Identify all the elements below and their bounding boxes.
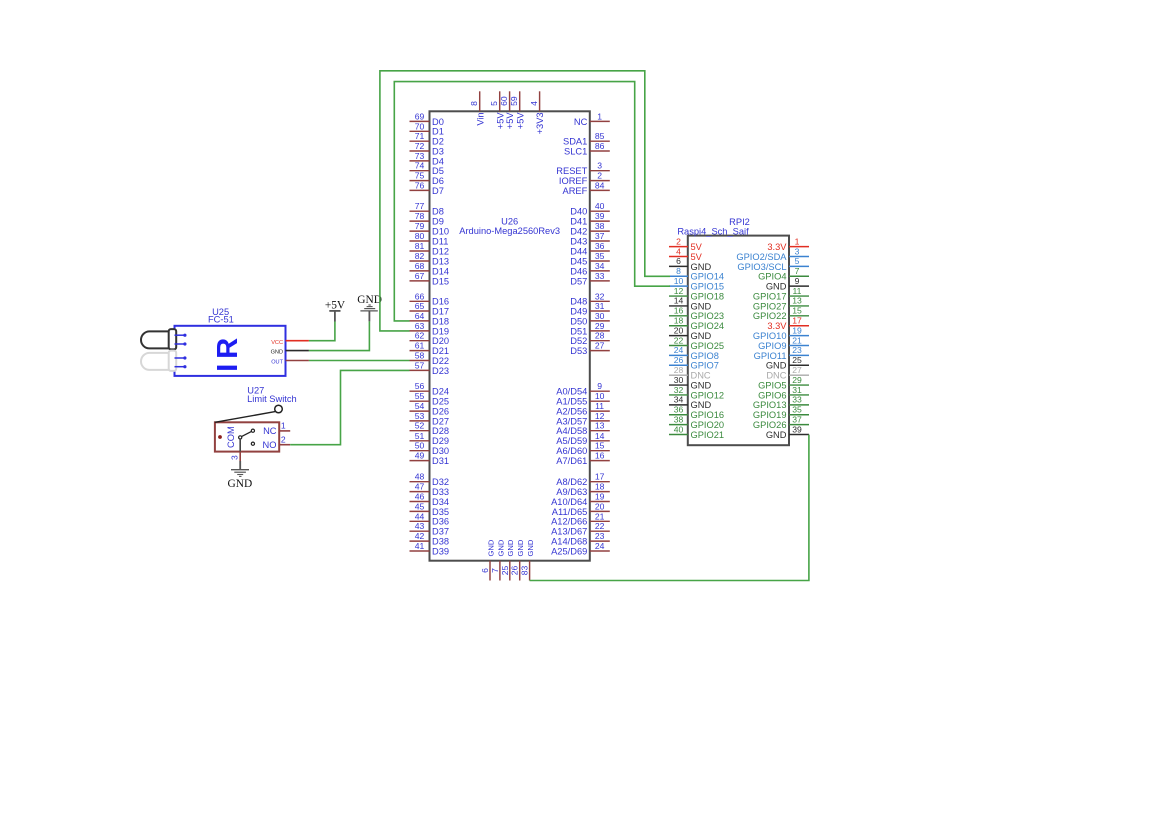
svg-text:A9/D63: A9/D63 — [556, 487, 587, 497]
svg-text:49: 49 — [415, 451, 425, 461]
U26 pin 43 D37 (left) — [410, 521, 450, 536]
RPI2 pin 26 GPIO7 (left) — [669, 355, 719, 371]
svg-text:3: 3 — [229, 455, 239, 460]
svg-text:A13/D67: A13/D67 — [551, 527, 587, 537]
svg-text:GPIO22: GPIO22 — [753, 311, 787, 321]
svg-text:34: 34 — [674, 395, 684, 405]
svg-text:32: 32 — [595, 291, 605, 301]
U26 pin 36 D44 (right) — [570, 241, 610, 256]
RPI2 pin 7 GPIO4 (right) — [758, 266, 809, 282]
svg-text:D23: D23 — [432, 366, 449, 376]
svg-text:D21: D21 — [432, 346, 449, 356]
svg-text:53: 53 — [415, 411, 425, 421]
U26 pin 61 D21 (left) — [410, 341, 450, 356]
svg-text:IR: IR — [212, 333, 244, 372]
svg-text:22: 22 — [674, 335, 684, 345]
svg-text:64: 64 — [415, 311, 425, 321]
svg-text:22: 22 — [595, 521, 605, 531]
svg-text:40: 40 — [595, 201, 605, 211]
svg-text:39: 39 — [792, 424, 802, 434]
U26 pin 68 D14 (left) — [410, 261, 450, 276]
U26 pin 65 D17 (left) — [410, 301, 450, 316]
U26 pin 73 D4 (left) — [410, 151, 444, 166]
svg-text:D26: D26 — [432, 407, 449, 417]
RPI2 pin 35 GPIO19 (right) — [753, 405, 809, 421]
wire U25 OUT to U26 D22 — [309, 360, 410, 362]
svg-text:7: 7 — [490, 568, 500, 573]
svg-text:U26: U26 — [501, 217, 518, 227]
RPI2 pin 27 DNC (right) — [766, 365, 809, 381]
U27 pin 3 COM (bottom) — [229, 452, 240, 461]
svg-text:25: 25 — [792, 355, 802, 365]
svg-text:24: 24 — [674, 345, 684, 355]
svg-text:A5/D59: A5/D59 — [556, 436, 587, 446]
svg-text:GPIO2/SDA: GPIO2/SDA — [736, 252, 787, 262]
U26 pin 18 A9/D63 (right) — [556, 482, 610, 497]
U26 pin 8 Vin (top) — [469, 91, 485, 125]
svg-text:1: 1 — [795, 236, 800, 246]
svg-text:79: 79 — [415, 221, 425, 231]
U26 pin 27 D53 (right) — [570, 341, 610, 356]
svg-text:A8/D62: A8/D62 — [556, 477, 587, 487]
U26 pin 3 RESET (right) — [556, 161, 610, 176]
U27 roller actuator circle — [275, 405, 283, 413]
svg-text:D10: D10 — [432, 227, 449, 237]
U26 pin 51 D29 (left) — [410, 431, 450, 446]
sensor U25 FC-51 body — [175, 326, 286, 376]
svg-text:30: 30 — [595, 311, 605, 321]
svg-text:21: 21 — [595, 511, 605, 521]
U27 common terminal dot — [218, 435, 222, 439]
svg-text:+3V3: +3V3 — [535, 112, 545, 134]
svg-text:36: 36 — [595, 241, 605, 251]
U26 pin 82 D13 (left) — [410, 251, 450, 266]
U26 pin 85 SDA1 (right) — [563, 131, 610, 146]
U26 pin 40 D40 (right) — [570, 201, 610, 216]
svg-text:D25: D25 — [432, 397, 449, 407]
U26 pin 86 SLC1 (right) — [564, 141, 610, 156]
svg-text:GPIO6: GPIO6 — [758, 390, 786, 400]
svg-text:D33: D33 — [432, 487, 449, 497]
RPI2 pin 11 GPIO17 (right) — [753, 286, 809, 302]
svg-text:52: 52 — [415, 421, 425, 431]
svg-text:50: 50 — [415, 441, 425, 451]
svg-text:GND: GND — [691, 331, 712, 341]
svg-text:D50: D50 — [570, 316, 587, 326]
svg-text:A25/D69: A25/D69 — [551, 546, 587, 556]
switch U27 Limit Switch body — [215, 422, 279, 451]
svg-text:GPIO25: GPIO25 — [691, 341, 725, 351]
U27 pin 2 NO — [263, 435, 291, 451]
svg-text:A14/D68: A14/D68 — [551, 537, 587, 547]
svg-text:GND: GND — [271, 350, 283, 356]
svg-text:D12: D12 — [432, 246, 449, 256]
svg-text:D52: D52 — [570, 336, 587, 346]
RPI2 pin 18 GPIO24 (left) — [669, 316, 724, 332]
svg-text:GND: GND — [691, 380, 712, 390]
svg-text:82: 82 — [415, 251, 425, 261]
svg-text:23: 23 — [792, 345, 802, 355]
svg-text:3.3V: 3.3V — [767, 321, 787, 331]
svg-text:61: 61 — [415, 341, 425, 351]
svg-text:GPIO5: GPIO5 — [758, 380, 786, 390]
svg-text:GPIO8: GPIO8 — [691, 351, 719, 361]
svg-text:D35: D35 — [432, 507, 449, 517]
U26 pin 4 +3V3 (top) — [529, 91, 545, 134]
svg-text:1: 1 — [597, 111, 602, 121]
svg-text:3: 3 — [795, 246, 800, 256]
svg-text:GPIO20: GPIO20 — [691, 420, 725, 430]
U25 pin OUT — [271, 360, 309, 366]
svg-text:GPIO3/SCL: GPIO3/SCL — [737, 262, 786, 272]
wire U26 D18 to RPI2 GPIO15 (pin 10) — [394, 82, 670, 321]
U27 COM internal wire — [239, 439, 241, 452]
U26 pin 19 A10/D64 (right) — [551, 492, 610, 507]
svg-text:D6: D6 — [432, 176, 444, 186]
U26 pin 42 D38 (left) — [410, 531, 450, 546]
U27 switch pivot contact — [239, 436, 242, 439]
U25 internal LED pin 3 — [175, 356, 187, 359]
svg-text:D48: D48 — [570, 297, 587, 307]
svg-text:GND: GND — [506, 539, 515, 556]
svg-text:20: 20 — [674, 325, 684, 335]
U26 pin 55 D25 (left) — [410, 391, 450, 406]
RPI2 pin 28 DNC (left) — [669, 365, 711, 381]
svg-text:A0/D54: A0/D54 — [556, 387, 587, 397]
RPI2 pin 2 5V (left) — [669, 236, 703, 252]
svg-text:D41: D41 — [570, 217, 587, 227]
U26 pin 15 A6/D60 (right) — [556, 441, 610, 456]
svg-text:D24: D24 — [432, 387, 449, 397]
svg-text:GND: GND — [357, 294, 382, 306]
svg-text:9: 9 — [597, 381, 602, 391]
svg-text:68: 68 — [415, 261, 425, 271]
svg-text:15: 15 — [792, 306, 802, 316]
U26 pin 80 D11 (left) — [410, 231, 449, 246]
svg-text:2: 2 — [676, 236, 681, 246]
RPI2 pin 10 GPIO15 (left) — [669, 276, 724, 292]
svg-text:8: 8 — [469, 101, 479, 106]
U26 pin 35 D45 (right) — [570, 251, 610, 266]
U27 NC contact — [251, 429, 254, 432]
U26 pin 53 D27 (left) — [410, 411, 450, 426]
svg-text:6: 6 — [480, 568, 490, 573]
svg-text:32: 32 — [674, 385, 684, 395]
svg-text:29: 29 — [792, 375, 802, 385]
U26 pin 5 +5V (top) — [489, 91, 505, 129]
svg-text:24: 24 — [595, 541, 605, 551]
svg-text:44: 44 — [415, 511, 425, 521]
U26 pin 45 D35 (left) — [410, 501, 450, 516]
ground symbol GND (near U25) — [357, 294, 382, 322]
U26 pin 54 D26 (left) — [410, 401, 450, 416]
svg-text:D43: D43 — [570, 236, 587, 246]
connector RPI2 Raspi4_Sch_Saif body — [688, 236, 789, 446]
U26 pin 84 AREF (right) — [563, 180, 610, 195]
svg-text:33: 33 — [792, 395, 802, 405]
RPI2 pin 9 GND (right) — [766, 276, 809, 292]
U26 pin 57 D23 (left) — [410, 360, 450, 375]
U25 internal LED pin 1 — [175, 334, 187, 337]
svg-text:GPIO26: GPIO26 — [753, 420, 787, 430]
svg-text:70: 70 — [415, 121, 425, 131]
U26 pin 59 +5V (top) — [509, 91, 525, 129]
U26 pin 14 A5/D59 (right) — [556, 431, 610, 446]
svg-text:Vin: Vin — [475, 112, 485, 125]
svg-text:4: 4 — [676, 246, 681, 256]
U26 pin 17 A8/D62 (right) — [556, 472, 610, 487]
svg-text:GPIO17: GPIO17 — [753, 291, 787, 301]
svg-text:10: 10 — [595, 391, 605, 401]
U26 pin 34 D46 (right) — [570, 261, 610, 276]
RPI2 pin 31 GPIO6 (right) — [758, 385, 809, 401]
svg-text:GND: GND — [526, 539, 535, 556]
RPI2 pin 8 GPIO14 (left) — [669, 266, 724, 282]
svg-text:IOREF: IOREF — [559, 176, 588, 186]
svg-text:3.3V: 3.3V — [767, 242, 787, 252]
svg-text:17: 17 — [792, 316, 802, 326]
svg-text:A2/D56: A2/D56 — [556, 407, 587, 417]
svg-text:85: 85 — [595, 131, 605, 141]
svg-text:D11: D11 — [432, 236, 448, 246]
U26 pin 47 D33 (left) — [410, 482, 450, 497]
svg-text:A3/D57: A3/D57 — [556, 416, 587, 426]
svg-text:GPIO27: GPIO27 — [753, 301, 787, 311]
RPI2 pin 23 GPIO11 (right) — [754, 345, 809, 361]
svg-text:43: 43 — [415, 521, 425, 531]
RPI2 pin 12 GPIO18 (left) — [669, 286, 724, 302]
U26 pin 70 D1 (left) — [410, 121, 444, 136]
svg-text:+5V: +5V — [505, 112, 515, 130]
U25 pin GND — [271, 350, 309, 356]
svg-text:80: 80 — [415, 231, 425, 241]
U26 pin 7 GND (bottom) — [490, 539, 505, 580]
RPI2 pin 21 GPIO9 (right) — [758, 335, 809, 351]
U26 pin 10 A1/D55 (right) — [556, 391, 610, 406]
svg-text:4: 4 — [529, 101, 539, 106]
svg-text:D2: D2 — [432, 137, 444, 147]
U26 pin 56 D24 (left) — [410, 381, 450, 396]
U26 pin 32 D48 (right) — [570, 291, 610, 306]
svg-text:15: 15 — [595, 441, 605, 451]
svg-text:+5V: +5V — [515, 112, 525, 130]
U27 lever arm — [215, 412, 275, 423]
U26 pin 24 A25/D69 (right) — [551, 541, 610, 556]
svg-text:D3: D3 — [432, 146, 444, 156]
RPI2 pin 36 GPIO16 (left) — [669, 405, 724, 421]
RPI2 pin 17 3.3V (right) — [767, 316, 809, 332]
svg-text:11: 11 — [793, 286, 802, 296]
U26 pin 2 IOREF (right) — [559, 171, 610, 186]
svg-text:GND: GND — [496, 539, 505, 556]
svg-text:GND: GND — [766, 361, 787, 371]
svg-text:26: 26 — [510, 566, 520, 576]
U26 pin 30 D50 (right) — [570, 311, 610, 326]
svg-text:5V: 5V — [691, 242, 703, 252]
svg-text:83: 83 — [520, 566, 530, 576]
RPI2 pin 32 GPIO12 (left) — [669, 385, 724, 401]
power symbol +5V — [325, 300, 346, 322]
svg-text:AREF: AREF — [563, 186, 588, 196]
U26 pin 66 D16 (left) — [410, 291, 450, 306]
svg-text:8: 8 — [676, 266, 681, 276]
svg-text:D5: D5 — [432, 166, 444, 176]
svg-text:14: 14 — [674, 296, 684, 306]
svg-text:A10/D64: A10/D64 — [551, 497, 587, 507]
svg-text:1: 1 — [281, 421, 286, 431]
U26 pin 76 D7 (left) — [410, 180, 444, 195]
svg-text:D27: D27 — [432, 416, 449, 426]
svg-text:NC: NC — [574, 117, 588, 127]
U25 IR LED receiver drawing — [141, 351, 176, 371]
U26 pin 25 GND (bottom) — [500, 539, 515, 580]
U26 pin 23 A14/D68 (right) — [551, 531, 610, 546]
svg-text:A1/D55: A1/D55 — [556, 397, 587, 407]
U26 pin 78 D9 (left) — [410, 211, 444, 226]
svg-text:25: 25 — [500, 566, 510, 576]
ground symbol GND (below U27) — [228, 461, 253, 490]
svg-text:72: 72 — [415, 141, 425, 151]
svg-text:23: 23 — [595, 531, 605, 541]
svg-text:GPIO16: GPIO16 — [691, 410, 725, 420]
svg-text:84: 84 — [595, 180, 605, 190]
svg-text:GND: GND — [516, 539, 525, 556]
U26 pin 20 A11/D65 (right) — [552, 501, 610, 516]
svg-text:17: 17 — [595, 472, 605, 482]
svg-text:18: 18 — [595, 482, 605, 492]
svg-text:GPIO14: GPIO14 — [691, 272, 725, 282]
U26 pin 44 D36 (left) — [410, 511, 450, 526]
RPI2 pin 30 GND (left) — [669, 375, 711, 391]
U25 IR LED emitter drawing — [141, 329, 176, 349]
U26 pin 48 D32 (left) — [410, 472, 450, 487]
svg-text:75: 75 — [415, 171, 425, 181]
RPI2 pin 20 GND (left) — [669, 325, 711, 341]
svg-text:D39: D39 — [432, 546, 449, 556]
RPI2 pin 6 GND (left) — [669, 256, 711, 272]
svg-text:D1: D1 — [432, 127, 444, 137]
svg-text:6: 6 — [676, 256, 681, 266]
svg-text:D42: D42 — [570, 227, 587, 237]
svg-text:71: 71 — [415, 131, 425, 141]
U25 pin VCC — [271, 340, 309, 346]
svg-text:D17: D17 — [432, 306, 449, 316]
U26 pin 11 A2/D56 (right) — [556, 401, 610, 416]
svg-text:GND: GND — [691, 301, 712, 311]
svg-text:D32: D32 — [432, 477, 449, 487]
svg-text:D37: D37 — [432, 527, 449, 537]
svg-text:7: 7 — [795, 266, 800, 276]
svg-text:D15: D15 — [432, 276, 449, 286]
svg-text:D9: D9 — [432, 217, 444, 227]
U26 pin 83 GND (bottom) — [520, 539, 535, 580]
svg-text:DNC: DNC — [691, 371, 711, 381]
svg-text:18: 18 — [674, 316, 684, 326]
wire U26 D19 to RPI2 GPIO14 (pin 8) — [380, 71, 670, 331]
svg-text:13: 13 — [595, 421, 605, 431]
svg-text:78: 78 — [415, 211, 425, 221]
svg-text:D30: D30 — [432, 446, 449, 456]
svg-text:D49: D49 — [570, 306, 587, 316]
svg-text:RESET: RESET — [556, 166, 587, 176]
U26 pin 69 D0 (left) — [410, 111, 444, 126]
svg-text:13: 13 — [792, 296, 802, 306]
svg-text:2: 2 — [597, 171, 602, 181]
svg-text:+5V: +5V — [495, 112, 505, 130]
svg-text:62: 62 — [415, 331, 425, 341]
U26 pin 37 D43 (right) — [570, 231, 610, 246]
svg-text:GPIO13: GPIO13 — [753, 400, 787, 410]
U26 pin 26 GND (bottom) — [510, 539, 525, 580]
svg-text:Arduino-Mega2560Rev3: Arduino-Mega2560Rev3 — [459, 226, 560, 236]
RPI2 pin 16 GPIO23 (left) — [669, 306, 724, 322]
U26 pin 41 D39 (left) — [410, 541, 450, 556]
U26 pin 77 D8 (left) — [410, 201, 444, 216]
svg-text:D29: D29 — [432, 436, 449, 446]
svg-text:12: 12 — [674, 286, 684, 296]
svg-text:DNC: DNC — [766, 371, 786, 381]
svg-text:NO: NO — [263, 440, 277, 450]
RPI2 pin 24 GPIO8 (left) — [669, 345, 719, 361]
svg-text:D18: D18 — [432, 316, 449, 326]
svg-text:A4/D58: A4/D58 — [556, 426, 587, 436]
svg-text:Limit Switch: Limit Switch — [247, 394, 297, 404]
U26 pin 33 D57 (right) — [570, 271, 610, 286]
svg-text:16: 16 — [674, 306, 684, 316]
svg-text:14: 14 — [595, 431, 605, 441]
svg-text:RPI2: RPI2 — [729, 217, 750, 227]
svg-text:74: 74 — [415, 161, 425, 171]
svg-text:5: 5 — [489, 101, 499, 106]
U26 pin 72 D3 (left) — [410, 141, 444, 156]
U26 pin 21 A12/D66 (right) — [551, 511, 610, 526]
svg-text:D38: D38 — [432, 537, 449, 547]
svg-text:D57: D57 — [570, 276, 587, 286]
svg-text:67: 67 — [415, 271, 425, 281]
U26 pin 31 D49 (right) — [570, 301, 610, 316]
svg-text:D7: D7 — [432, 186, 444, 196]
U26 pin 52 D28 (left) — [410, 421, 450, 436]
svg-text:63: 63 — [415, 321, 425, 331]
svg-text:29: 29 — [595, 321, 605, 331]
svg-text:51: 51 — [415, 431, 425, 441]
svg-text:5V: 5V — [691, 252, 703, 262]
svg-text:GND: GND — [766, 282, 787, 292]
svg-text:56: 56 — [415, 381, 425, 391]
U26 pin 9 A0/D54 (right) — [556, 381, 610, 396]
svg-text:Raspi4_Sch_Saif: Raspi4_Sch_Saif — [677, 226, 749, 236]
svg-text:D0: D0 — [432, 117, 444, 127]
svg-text:9: 9 — [795, 276, 800, 286]
U26 pin 81 D12 (left) — [410, 241, 450, 256]
svg-text:GPIO9: GPIO9 — [758, 341, 786, 351]
svg-text:31: 31 — [792, 385, 802, 395]
U26 pin 74 D5 (left) — [410, 161, 444, 176]
svg-text:A7/D61: A7/D61 — [556, 456, 587, 466]
svg-text:59: 59 — [509, 96, 519, 106]
svg-text:11: 11 — [595, 401, 604, 411]
svg-text:GND: GND — [691, 262, 712, 272]
U26 pin 1 NC (right) — [574, 111, 610, 126]
svg-text:42: 42 — [415, 531, 425, 541]
svg-text:30: 30 — [674, 375, 684, 385]
RPI2 pin 14 GND (left) — [669, 296, 711, 312]
svg-text:GPIO21: GPIO21 — [691, 430, 725, 440]
svg-text:D4: D4 — [432, 156, 444, 166]
U27 switch blade — [242, 431, 252, 436]
svg-text:COM: COM — [226, 426, 236, 448]
svg-text:76: 76 — [415, 180, 425, 190]
